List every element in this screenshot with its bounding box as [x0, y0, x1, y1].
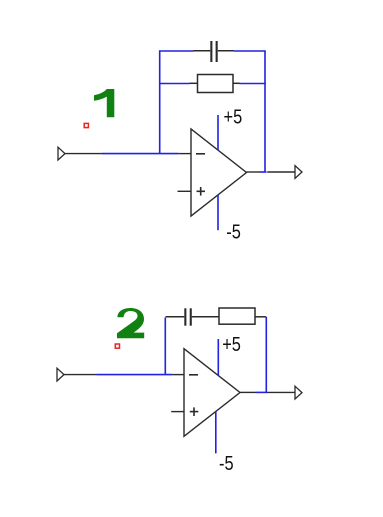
wire: output junction segment (blue) — [260, 171, 267, 173]
wire: input net (blue, circuit 2) — [97, 374, 173, 376]
wire: output lead (black, circuit 2) — [240, 391, 256, 393]
op-amp U1 body — [191, 129, 247, 216]
output terminal arrow (circuit 2) — [295, 386, 302, 399]
wire: capacitor row right (blue) — [234, 50, 266, 52]
svg-text:+5: +5 — [224, 105, 243, 128]
op-amp U2 plus symbol — [190, 407, 199, 416]
resistor R1 — [190, 75, 240, 93]
marker (red probe square) circuit 1 — [84, 123, 88, 127]
wire: resistor row right (blue) — [240, 83, 266, 85]
pin V- (circuit 1, blue) — [217, 195, 219, 230]
wire: output to terminal (black) — [267, 171, 295, 173]
wire: feedback left vertical (blue, circuit 2) — [164, 318, 166, 375]
capacitor C1 — [194, 41, 235, 62]
marker (red probe square) circuit 2 — [115, 344, 119, 348]
capacitor C2 — [166, 308, 220, 325]
output terminal arrow (circuit 1) — [295, 166, 302, 179]
wire: output to terminal (black, circuit 2) — [267, 391, 295, 393]
input terminal arrow (circuit 2) — [57, 368, 64, 381]
wire: capacitor row left (blue) — [159, 50, 194, 52]
wire: op-amp non-inverting input stub (black, circuit 2) — [171, 411, 184, 413]
svg-text:-5: -5 — [226, 220, 241, 243]
label 2 (circuit number) — [117, 308, 144, 338]
pin V+ (circuit 2, blue) — [217, 339, 219, 375]
svg-text:-5: -5 — [219, 451, 234, 474]
op-amp U1 plus symbol — [197, 187, 206, 196]
input terminal arrow (circuit 1) — [58, 147, 65, 160]
op-amp U1 minus symbol — [196, 153, 205, 155]
wire: output junction segment (blue, circuit 2) — [256, 391, 268, 393]
wire: op-amp non-inverting input stub (black) — [178, 190, 192, 192]
wire: output lead (black) — [247, 171, 260, 173]
op-amp U2 minus symbol — [189, 374, 198, 376]
svg-text:+5: +5 — [222, 333, 241, 356]
wire: input terminal lead (black) — [65, 153, 102, 155]
op-amp U2 body — [184, 349, 240, 437]
wire: feedback right vertical (blue) — [264, 51, 266, 172]
wire: feedback left vertical (blue) — [159, 51, 161, 154]
wire: resistor row left (blue) — [159, 83, 190, 85]
resistor R2 — [219, 308, 266, 324]
wire: feedback right vertical (blue, circuit 2) — [265, 317, 267, 392]
wire: op-amp inverting input lead (black) — [178, 153, 191, 155]
wire: input net (blue) — [102, 153, 178, 155]
pin V- (circuit 2, blue) — [215, 411, 217, 453]
label 1 (circuit number) — [94, 89, 114, 117]
wire: op-amp inverting input lead (black, circuit 2) — [172, 374, 184, 376]
pin V+ (circuit 1, blue) — [217, 115, 219, 150]
wire: input terminal lead (black, circuit 2) — [64, 374, 97, 376]
